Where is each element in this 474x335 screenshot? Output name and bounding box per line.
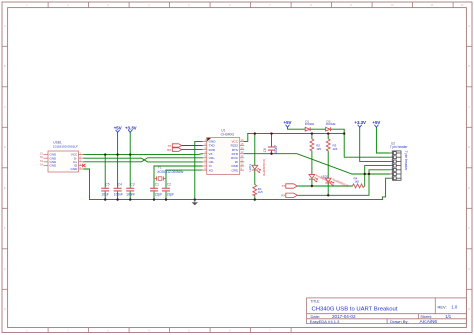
svg-text:+5V: +5V bbox=[114, 125, 122, 130]
svg-text:G: G bbox=[468, 267, 470, 271]
svg-text:ArcAiN6: ArcAiN6 bbox=[420, 319, 438, 325]
svg-text:S4: S4 bbox=[40, 163, 44, 167]
svg-text:G: G bbox=[4, 267, 6, 271]
svg-text:100nF: 100nF bbox=[126, 193, 135, 197]
svg-text:B: B bbox=[468, 64, 470, 68]
svg-text:C: C bbox=[468, 105, 470, 109]
svg-text:22pF: 22pF bbox=[167, 193, 174, 197]
svg-text:XOSC/12.000MHz: XOSC/12.000MHz bbox=[157, 170, 184, 174]
svg-text:DIODE: DIODE bbox=[305, 122, 315, 126]
svg-text:7 pin header: 7 pin header bbox=[390, 145, 409, 149]
svg-text:Drawn By:: Drawn By: bbox=[390, 319, 408, 324]
svg-text:Y1: Y1 bbox=[158, 165, 162, 169]
svg-text:10118193-0001LF: 10118193-0001LF bbox=[53, 145, 78, 149]
svg-text:1k5: 1k5 bbox=[354, 180, 359, 184]
svg-text:1k5: 1k5 bbox=[316, 147, 321, 151]
svg-text:RX: RX bbox=[167, 148, 171, 152]
svg-text:H: H bbox=[468, 307, 470, 311]
svg-text:E: E bbox=[468, 186, 470, 190]
svg-text:+5V: +5V bbox=[372, 120, 380, 125]
svg-text:S2: S2 bbox=[40, 155, 44, 159]
svg-text:TITLE:: TITLE: bbox=[311, 300, 321, 304]
svg-text:LED1: LED1 bbox=[248, 164, 252, 172]
svg-text:C1: C1 bbox=[155, 183, 159, 187]
svg-text:H: H bbox=[4, 307, 6, 311]
svg-text:C2: C2 bbox=[167, 183, 171, 187]
svg-text:B: B bbox=[4, 64, 6, 68]
svg-text:+3.3V: +3.3V bbox=[125, 125, 137, 130]
svg-text:S3: S3 bbox=[40, 159, 44, 163]
svg-text:100nF: 100nF bbox=[114, 193, 123, 197]
svg-text:C: C bbox=[4, 105, 6, 109]
svg-text:CH340G USB to UART Breakout: CH340G USB to UART Breakout bbox=[312, 306, 398, 312]
svg-text:100nF: 100nF bbox=[274, 145, 278, 154]
svg-text:D: D bbox=[4, 145, 6, 149]
svg-text:XO: XO bbox=[209, 168, 214, 172]
svg-text:Sheet:: Sheet: bbox=[420, 314, 432, 319]
svg-text:TX: TX bbox=[282, 184, 286, 188]
svg-text:DIODE: DIODE bbox=[326, 122, 336, 126]
svg-text:Red0805(C2): Red0805(C2) bbox=[262, 159, 266, 176]
svg-text:GND: GND bbox=[71, 167, 79, 171]
svg-text:10uF: 10uF bbox=[101, 193, 108, 197]
svg-text:1k5: 1k5 bbox=[333, 147, 338, 151]
svg-text:CRS: CRS bbox=[231, 168, 238, 172]
svg-text:GND: GND bbox=[50, 164, 58, 168]
svg-text:C5: C5 bbox=[105, 183, 109, 187]
svg-text:2017-04-02: 2017-04-02 bbox=[332, 314, 356, 319]
svg-text:EasyEDA V4.1.3: EasyEDA V4.1.3 bbox=[310, 319, 340, 324]
svg-text:A: A bbox=[4, 24, 6, 28]
svg-text:+3.3V: +3.3V bbox=[354, 120, 366, 125]
svg-text:CH340G: CH340G bbox=[221, 132, 235, 136]
svg-text:S1: S1 bbox=[40, 152, 44, 156]
svg-text:7 pin header: 7 pin header bbox=[404, 151, 408, 172]
svg-text:A: A bbox=[468, 24, 470, 28]
svg-text:C6: C6 bbox=[263, 148, 267, 152]
svg-text:1/1: 1/1 bbox=[445, 314, 452, 319]
svg-text:C4: C4 bbox=[118, 183, 122, 187]
svg-text:+5V: +5V bbox=[284, 120, 292, 125]
svg-text:22pF: 22pF bbox=[155, 193, 162, 197]
svg-text:1k5: 1k5 bbox=[258, 190, 263, 194]
svg-text:REV:: REV: bbox=[438, 304, 447, 309]
svg-text:C3: C3 bbox=[130, 183, 134, 187]
svg-text:E: E bbox=[4, 186, 6, 190]
svg-text:RX: RX bbox=[281, 194, 285, 198]
svg-text:1.0: 1.0 bbox=[451, 304, 458, 309]
svg-text:D: D bbox=[468, 145, 470, 149]
